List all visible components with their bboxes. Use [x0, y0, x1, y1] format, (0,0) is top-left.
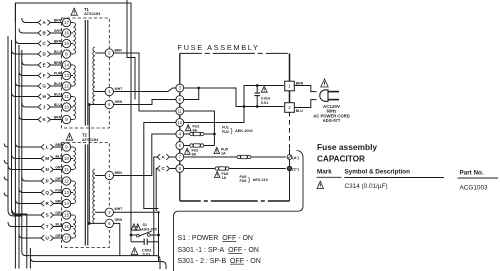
wire stub pin 16 — [71, 32, 74, 34]
wire top stub to pin 5 route — [127, 0, 135, 100]
wire BRN to T1 pin 9 — [51, 119, 63, 121]
wire pin 7 to FU5 — [184, 156, 237, 158]
wire BLK to T1 pin 11 — [51, 96, 63, 98]
wire BRN to T2 pin 14 — [54, 203, 63, 205]
transformer T2 warning triangle — [66, 133, 72, 140]
transformer T2 dashed outline — [62, 143, 110, 248]
svg-text:ATS1154: ATS1154 — [82, 137, 99, 142]
wire BLK to T2 pin 16 — [54, 226, 63, 228]
svg-text:BRN: BRN — [115, 49, 123, 53]
svg-text:(A'): (A') — [292, 155, 299, 160]
connector A — [157, 154, 160, 160]
svg-text:Fuse assembly: Fuse assembly — [317, 142, 377, 152]
wire FU5 to pin A' — [251, 156, 286, 158]
node C314 bottom — [256, 105, 259, 108]
svg-text:FU2: FU2 — [222, 130, 229, 134]
wire bottom rail 1 — [22, 50, 160, 269]
svg-text:(C'): (C') — [292, 166, 299, 171]
wire S1 to C503 right — [158, 235, 160, 242]
wire stub pin 14 — [71, 64, 74, 66]
svg-text:BLU: BLU — [54, 50, 62, 54]
wire harness vertical 3 — [14, 3, 16, 269]
wire stub T2 pin 15 — [71, 214, 74, 216]
wire board boundary rounded — [174, 151, 304, 271]
wire bottom rail 2 — [30, 248, 166, 269]
T1 primary pin 11 — [62, 92, 70, 100]
svg-text:0.01: 0.01 — [143, 253, 150, 257]
wire T1 row E — [22, 61, 38, 66]
wire stub T2 pin 12 — [71, 180, 74, 182]
wire GRY to T1 pin 16 — [51, 32, 63, 34]
svg-text:16: 16 — [64, 31, 70, 36]
svg-text:11: 11 — [178, 108, 183, 113]
wire stub T2 pin 10 — [71, 158, 74, 160]
wire T1 row J — [22, 103, 38, 108]
capacitor C314 warning triangle — [261, 86, 267, 92]
svg-text:BRN: BRN — [54, 115, 62, 119]
svg-text:8A: 8A — [192, 152, 197, 156]
fuse FU2 warning triangle — [184, 148, 190, 154]
svg-text:P: P — [46, 179, 49, 184]
fuse assembly box right edge lower — [289, 149, 291, 201]
wire stub pin 17 — [71, 22, 74, 24]
connector Q — [41, 190, 44, 196]
wire T2 secondary tap 3 — [95, 211, 105, 213]
wire GRY to T2 pin 11 — [54, 169, 63, 171]
T1 primary pin 14 — [62, 61, 70, 69]
T1 secondary pin 3 — [105, 49, 113, 57]
wire T2 row P — [22, 177, 41, 182]
switch S1 warning triangles — [131, 224, 137, 230]
wire BLU to T1 pin 10 — [51, 106, 63, 108]
connector G — [38, 83, 41, 89]
fuse FU6 — [215, 167, 218, 170]
svg-text:WHT: WHT — [115, 207, 124, 211]
wire T1 pin1 WHT to fuse pin 3 — [114, 88, 176, 92]
node C314 top — [256, 84, 259, 87]
fuse FU6 warning triangle — [214, 171, 220, 177]
svg-text:C314 (0.01/µF): C314 (0.01/µF) — [345, 183, 388, 190]
T1 core — [84, 20, 86, 126]
svg-text:15: 15 — [64, 41, 70, 46]
wire T2 row N — [8, 165, 41, 170]
wire connector C drop — [156, 169, 158, 212]
node T1 center tap junction — [88, 103, 91, 106]
svg-text:12: 12 — [64, 179, 70, 184]
wire PUR to T2 pin 13 — [54, 192, 63, 194]
svg-text:12: 12 — [64, 84, 70, 89]
svg-text:AEK-1002: AEK-1002 — [235, 129, 253, 133]
T2 primary pin 10 — [62, 154, 70, 162]
wire S1 to C503 left — [130, 235, 132, 242]
connector J — [38, 104, 41, 110]
wire GRY to T2 pin 17 — [54, 237, 63, 239]
fuse assembly box bottom edge — [180, 200, 290, 202]
T1 secondary pin 6 — [105, 100, 113, 108]
node pin C' — [287, 166, 292, 171]
T1 primary pin 17 — [62, 18, 70, 26]
wire T1 secondary tap 3 — [95, 52, 105, 54]
wire A to pin 7 — [170, 156, 176, 158]
wire T1 secondary tap 1 — [95, 91, 105, 93]
svg-text:FU6: FU6 — [240, 179, 247, 183]
svg-text:E: E — [43, 63, 46, 68]
svg-text:J: J — [43, 105, 46, 110]
fuse assembly box left edge — [179, 53, 181, 201]
wire T2 row R — [15, 199, 41, 204]
table rule under Part No. — [458, 177, 499, 179]
svg-text:FUSE ASSEMBLY: FUSE ASSEMBLY — [178, 43, 260, 52]
T2 primary pin 14 — [62, 199, 70, 207]
T2 primary winding group 1 — [73, 147, 75, 170]
wire T1 secondary tap 6 — [89, 104, 105, 106]
wire branch to pin 5 — [184, 88, 199, 100]
T1 primary pin 8 — [62, 50, 70, 58]
svg-text:BLU: BLU — [296, 109, 304, 113]
svg-text:15: 15 — [64, 213, 70, 218]
wire pin 1 to plug — [295, 86, 317, 92]
node hook 4 — [4, 193, 8, 197]
node hook 3 — [4, 177, 8, 181]
wire T2 row S — [12, 211, 42, 216]
svg-text:BRN: BRN — [115, 171, 123, 175]
fuse assembly box right edge dashed — [289, 112, 291, 149]
wire T1 pin3 BRN to fuse pin 11 — [114, 53, 176, 111]
svg-text:M: M — [45, 156, 49, 161]
wire FU6 to pin C' — [229, 168, 286, 170]
connector M — [41, 156, 44, 162]
wire BRN rail to pin 1 — [184, 86, 284, 123]
svg-text:10: 10 — [64, 105, 70, 110]
svg-text:GRY: GRY — [54, 29, 62, 33]
svg-text:ASG-355: ASG-355 — [141, 228, 157, 232]
svg-text:Mark: Mark — [317, 169, 332, 176]
wire BRN to T1 pin 15 — [51, 43, 63, 45]
fuse assembly box top edge — [180, 52, 290, 54]
wire T1 row H — [12, 92, 39, 97]
wire T2 row M — [12, 154, 42, 159]
connector E — [38, 62, 41, 68]
svg-text:F: F — [43, 73, 46, 78]
connector P — [41, 178, 44, 184]
T1 primary pin 16 — [62, 29, 70, 37]
svg-text:Symbol & Description: Symbol & Description — [345, 169, 411, 176]
fuse FU1 warning triangle — [185, 125, 191, 131]
svg-text:11: 11 — [64, 167, 69, 172]
svg-text:ADG-077: ADG-077 — [323, 118, 341, 123]
connector C — [38, 41, 41, 47]
T2 secondary pin 6 — [105, 219, 113, 227]
wire T2 pin3 WHT to switch S1 — [114, 212, 159, 235]
wire stub pin 15 — [71, 43, 74, 45]
svg-text:13: 13 — [64, 73, 70, 78]
node T2 center tap junction — [88, 222, 91, 225]
T2 primary pin 13 — [62, 188, 70, 196]
wire BRN to T2 pin 9 — [54, 146, 63, 148]
wire stub T2 pin 9 — [71, 146, 74, 148]
wire GRY to T2 pin 12 — [54, 180, 63, 182]
svg-text:L: L — [46, 145, 49, 150]
connector A — [38, 20, 41, 26]
fuse FU2 — [190, 144, 193, 147]
wire T1 row C — [15, 39, 38, 44]
fuse assembly pin 4 — [176, 130, 184, 138]
svg-text:10: 10 — [64, 156, 70, 161]
wire BLU to T1 pin 8 — [51, 53, 63, 55]
T2 primary winding group 3 — [73, 215, 75, 238]
node S1 left — [130, 234, 133, 237]
wire stub T2 pin 16 — [71, 226, 74, 228]
fuse assembly pin 5 — [176, 96, 184, 104]
T1 primary winding group 3 — [73, 97, 75, 120]
wire T1 row D — [12, 50, 39, 55]
fuse assembly pin 11 — [176, 107, 184, 115]
svg-text:BRN: BRN — [54, 18, 62, 22]
fuse assembly box right edge upper — [289, 53, 291, 112]
wire FU2 output — [204, 145, 215, 147]
T2 secondary pin 3 — [105, 208, 113, 216]
svg-text:GRN: GRN — [115, 218, 123, 222]
svg-text:GRN: GRN — [115, 100, 123, 104]
wire T1 row A — [22, 18, 38, 23]
wire center tap bus T1 to T2 — [88, 105, 90, 224]
AC plug — [320, 90, 328, 101]
connector N — [41, 167, 44, 173]
svg-text:G: G — [42, 84, 46, 89]
wire stub pin 13 — [71, 75, 74, 77]
wire pin 2 to plug — [295, 100, 317, 108]
connector H — [38, 94, 41, 100]
node pin A' — [287, 155, 292, 160]
svg-text:17: 17 — [64, 236, 70, 241]
wire T2 row Q — [19, 188, 41, 193]
node S1 right — [157, 234, 160, 237]
svg-text:BLK: BLK — [54, 82, 62, 86]
wire T2 pin6 GRN to bottom rail — [114, 223, 120, 255]
node hook 1 — [4, 144, 8, 148]
wire harness vertical 1 — [8, 36, 22, 216]
wire BLU to T2 pin 10 — [54, 158, 63, 160]
connector R — [41, 201, 44, 207]
node rail branch — [197, 87, 200, 90]
wire stub T2 pin 14 — [71, 203, 74, 205]
transformer T1 warning triangle — [71, 8, 77, 15]
capacitor C314 — [256, 86, 258, 94]
table rule under Mark — [317, 176, 342, 178]
AC plug warning triangle — [321, 79, 328, 87]
wire fuse pin 12 to switch branch — [144, 123, 176, 209]
T2 secondary pin 1 — [105, 171, 113, 179]
wire pin 8 to FU6 — [184, 168, 215, 170]
svg-text:WHT: WHT — [115, 87, 124, 91]
wire T2 pin1 BRN to fuse pin 4 — [114, 134, 176, 176]
T1 primary pin 13 — [62, 71, 70, 79]
svg-text:BRN: BRN — [296, 81, 304, 85]
connector K — [38, 117, 41, 123]
T2 primary pin 15 — [62, 211, 70, 219]
svg-text:8A: 8A — [193, 129, 198, 133]
svg-text:CAPACITOR: CAPACITOR — [317, 155, 365, 164]
T2 secondary winding — [93, 169, 95, 223]
wire T1 row B — [19, 29, 38, 34]
fuse FU5 warning triangle — [214, 147, 220, 153]
wire C to pin 8 — [170, 168, 176, 170]
capacitor C503 warning triangle — [131, 248, 138, 255]
T1 primary winding group 2 — [73, 65, 75, 86]
svg-text:13: 13 — [64, 190, 70, 195]
node WHT junction — [157, 211, 159, 213]
svg-text:S1 : POWER OFF - ON: S1 : POWER OFF - ON — [178, 235, 253, 242]
T2 core — [84, 145, 86, 246]
wire fuse net vertical — [184, 111, 215, 146]
svg-text:S1: S1 — [143, 223, 148, 227]
wire T1 row G — [15, 82, 38, 87]
T2 primary pin 11 — [62, 165, 70, 173]
connector F — [38, 73, 41, 79]
connector U — [41, 235, 44, 241]
svg-text:16: 16 — [64, 224, 70, 229]
wire stub pin 11 — [71, 96, 74, 98]
svg-text:1A: 1A — [221, 152, 226, 156]
wire stub T2 pin 13 — [71, 192, 74, 194]
fuse assembly pin 12 — [176, 119, 184, 127]
svg-text:PUR: PUR — [54, 71, 62, 75]
node FU1 output — [213, 133, 216, 136]
svg-text:1A: 1A — [222, 176, 227, 180]
fuse assembly pin 6 — [176, 142, 184, 150]
svg-text:0.01: 0.01 — [261, 100, 269, 105]
table row mark triangle — [317, 181, 323, 188]
svg-text:ATS1153: ATS1153 — [84, 11, 101, 16]
svg-text:Q: Q — [45, 190, 49, 195]
T1 primary pin 10 — [62, 103, 70, 111]
wire T2 row T — [8, 222, 41, 227]
wire harness vertical 2 — [12, 40, 27, 269]
wire T1 pin6 GRN to fuse pin 5 — [114, 100, 176, 105]
T1 secondary winding — [93, 47, 95, 105]
T1 primary pin 9 — [62, 115, 70, 123]
svg-text:14: 14 — [64, 201, 70, 206]
transformer T1 dashed outline — [62, 18, 110, 128]
wire BRN to T1 pin 17 — [51, 22, 63, 24]
fuse FU5 — [237, 155, 240, 158]
node hook 2 — [4, 160, 8, 164]
connector D — [38, 51, 41, 57]
switch S1 — [131, 234, 136, 236]
svg-text:Part No.: Part No. — [460, 170, 484, 177]
T2 primary pin 12 — [62, 177, 70, 185]
wire PUR to T1 pin 13 — [51, 75, 63, 77]
wire pin 6 to FU2 — [184, 145, 190, 147]
svg-text:12: 12 — [178, 120, 183, 125]
wire pin 4 to FU1 — [184, 133, 190, 135]
svg-text:14: 14 — [64, 63, 70, 68]
wire fuse rail pin3 to jog — [184, 88, 284, 107]
svg-text:BLU: BLU — [54, 103, 62, 107]
connector T — [41, 224, 44, 230]
T1 primary pin 12 — [62, 82, 70, 90]
fuse assembly pin 7 — [176, 153, 184, 161]
svg-text:AEX-119: AEX-119 — [253, 178, 268, 182]
svg-text:S: S — [46, 213, 49, 218]
fuse assembly pin 3 — [176, 84, 184, 92]
wire T1 row K — [19, 115, 38, 120]
wire T2 row U — [19, 234, 41, 239]
T1 primary pin 15 — [62, 39, 70, 47]
wire FU1 to node — [204, 133, 215, 135]
svg-text:BLK: BLK — [56, 222, 64, 226]
wire BLK to T1 pin 12 — [51, 85, 63, 87]
svg-text:ACG1003: ACG1003 — [460, 184, 489, 191]
wire stub pin 12 — [71, 85, 74, 87]
svg-text:BLU: BLU — [56, 154, 64, 158]
wire stub T2 pin 11 — [71, 169, 74, 171]
wire connector A drop — [154, 157, 158, 256]
connector L — [41, 144, 44, 150]
wire stub pin 8 — [71, 53, 74, 55]
svg-text:BRN: BRN — [54, 61, 62, 65]
fuse assembly pin 2 — [285, 103, 295, 113]
wire stub T2 pin 17 — [71, 237, 74, 239]
svg-text:S301 -1 : SP-A OFF - ON: S301 -1 : SP-A OFF - ON — [178, 247, 259, 254]
wire top feed bus — [15, 3, 131, 235]
connector C — [157, 166, 160, 172]
table rule under Symbol — [344, 177, 444, 179]
svg-text:BLK: BLK — [54, 92, 62, 96]
wire GRY to T2 pin 15 — [54, 214, 63, 216]
fuse FU1 — [190, 132, 193, 135]
fuse assembly pin 8 — [176, 165, 184, 173]
capacitor C503 — [131, 241, 144, 243]
svg-text:BRN: BRN — [54, 39, 62, 43]
fuse assembly pin 1 — [285, 81, 295, 91]
node cap rail junction — [243, 105, 246, 108]
T1 secondary pin 1 — [105, 87, 113, 95]
T2 primary winding group 2 — [73, 181, 75, 204]
svg-text:T: T — [46, 224, 49, 229]
wire BRN to T1 pin 14 — [51, 64, 63, 66]
wire harness vertical 4 — [18, 45, 20, 269]
svg-text:S301 - 2 : SP-B OFF - ON: S301 - 2 : SP-B OFF - ON — [178, 258, 261, 265]
svg-text:17: 17 — [64, 20, 70, 25]
T1 primary winding group 1 — [73, 23, 75, 55]
T2 primary pin 9 — [62, 143, 70, 151]
T2 primary pin 17 — [62, 234, 70, 242]
wire T2 secondary tap 6 — [89, 222, 105, 224]
wire T2 row L — [15, 143, 41, 148]
connector B — [38, 30, 41, 36]
wire stub pin 10 — [71, 106, 74, 108]
svg-text:11: 11 — [64, 94, 69, 99]
wire T1 row F — [19, 71, 38, 76]
wire stub pin 9 — [71, 119, 74, 121]
wire T2 secondary tap 1 — [95, 175, 105, 177]
connector S — [41, 212, 44, 218]
T2 primary pin 16 — [62, 222, 70, 230]
wire S1 branch to bottom rail — [158, 242, 160, 262]
